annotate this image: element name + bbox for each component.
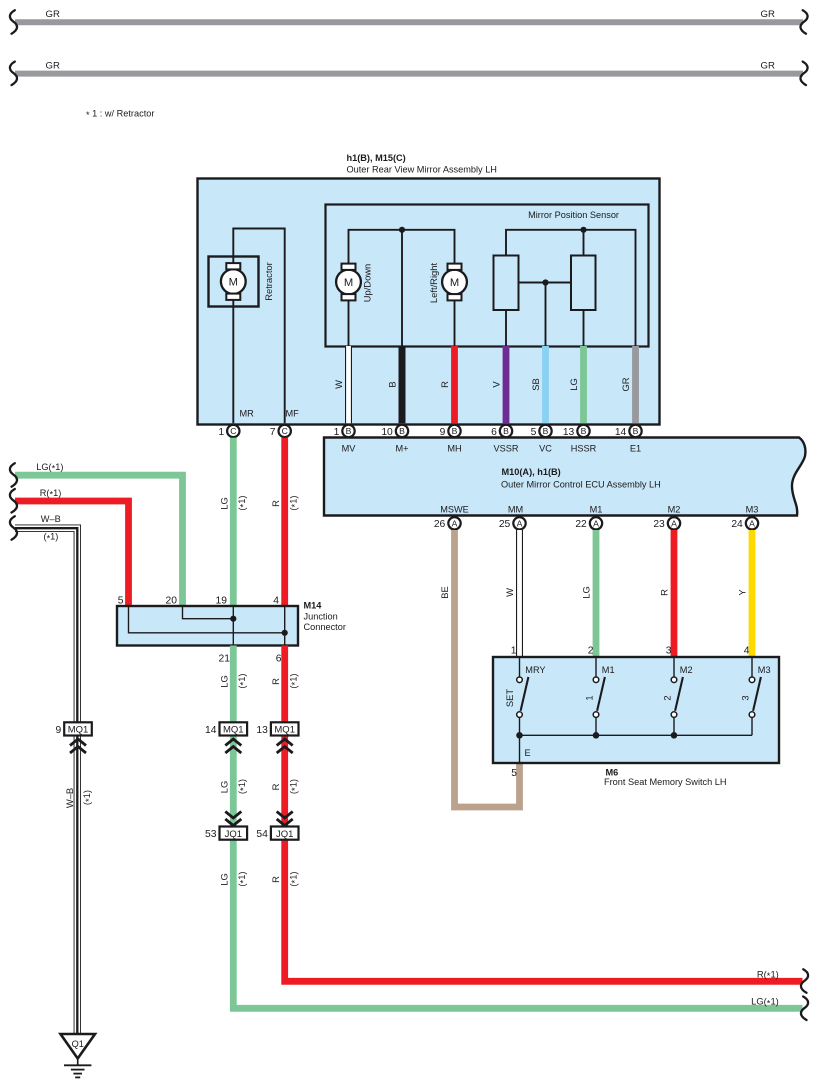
switch 3 (M3) (740, 658, 771, 735)
break symbol left of GR bus 1 (10, 10, 17, 34)
pin 6(B) VSSR (491, 425, 512, 438)
label LG (M1 wire) (581, 586, 592, 599)
label (*1) (below JQ1 R) (287, 871, 300, 886)
wire sensor top bus (VSSR to E1) (506, 230, 636, 347)
svg-text:R: R (270, 876, 281, 883)
label M10(A), h1(B) (502, 467, 561, 477)
label Front Seat Memory Switch LH (604, 777, 727, 787)
label W-B left entry (41, 514, 61, 524)
wire HSSR pot top drop (583, 230, 585, 256)
label pin E1 (630, 443, 641, 453)
svg-text:LG: LG (219, 675, 230, 688)
motor M left/right (442, 264, 467, 301)
svg-text:14: 14 (205, 725, 217, 736)
label BE (439, 586, 450, 599)
label pin MV (342, 443, 357, 453)
break symbol R(*1) right (801, 969, 808, 993)
svg-text:MQ1: MQ1 (274, 725, 295, 736)
svg-text:LG: LG (219, 873, 230, 886)
label pin 20 (M14) (166, 596, 178, 607)
label h1(B), M15(C) (347, 153, 406, 163)
svg-text:23: 23 (653, 519, 665, 530)
switch 2 (M2) (662, 658, 693, 735)
label R (MQ1-JQ1) (270, 783, 281, 790)
break symbol left of GR bus 2 (10, 62, 17, 86)
svg-text:h1(B), M15(C): h1(B), M15(C) (347, 153, 406, 163)
wire R from M14 pin 6 to right exit R(*1) (285, 646, 803, 982)
wire Y from M3 (749, 530, 756, 658)
wire LG(*1) from left to M14 pin 20 (15, 475, 183, 606)
wire retractor motor top to MF pin (233, 229, 284, 424)
wire LG from M14 pin 21 to right exit LG(*1) (233, 646, 802, 1009)
label R (C wire) (270, 500, 281, 507)
label R(*1) right exit (757, 968, 779, 981)
svg-text:* 1 : w/ Retractor: * 1 : w/ Retractor (86, 109, 154, 121)
svg-text:(*1): (*1) (287, 673, 300, 688)
svg-text:A: A (749, 518, 755, 528)
svg-text:V: V (491, 381, 502, 388)
wire up/down motor bottom drop (MV) (348, 298, 350, 346)
label pin 5 (M14) (118, 596, 124, 607)
wire M14 internal from pin 5 to pin 4 line (129, 607, 285, 633)
label GR (bus 2 left) (46, 60, 60, 71)
pin 22(A) M1 (575, 517, 602, 530)
label R(*1) left entry (40, 488, 61, 500)
pin 13(B) HSSR (563, 425, 590, 438)
pin 5(B) VC (531, 425, 552, 438)
pin 9(B) MH (440, 425, 461, 438)
svg-text:Y: Y (737, 589, 748, 596)
svg-text:M: M (450, 277, 459, 289)
svg-text:19: 19 (216, 596, 228, 607)
svg-text:(*1): (*1) (236, 779, 249, 794)
svg-text:MRY: MRY (525, 665, 545, 675)
svg-text:(*1): (*1) (44, 532, 59, 544)
label W (333, 380, 344, 389)
svg-text:21: 21 (219, 654, 231, 665)
svg-text:9: 9 (55, 725, 61, 736)
svg-text:13: 13 (256, 725, 268, 736)
connector 9 MQ1 (W-B) (55, 722, 91, 736)
svg-text:R: R (270, 783, 281, 790)
svg-text:B: B (387, 381, 398, 387)
label R (below M14) (270, 678, 281, 685)
inner box Mirror Position Sensor (326, 205, 649, 347)
label M14 (304, 601, 323, 611)
svg-text:HSSR: HSSR (571, 443, 597, 453)
label pin HSSR (571, 443, 597, 453)
label LG(*1) left entry (36, 462, 63, 474)
label Y (M3 wire) (737, 589, 748, 596)
wire B (M+ segment) (399, 346, 406, 423)
svg-text:1: 1 (511, 646, 517, 657)
svg-text:6: 6 (491, 427, 497, 438)
svg-text:1: 1 (334, 427, 340, 438)
svg-text:LG: LG (581, 586, 592, 599)
svg-text:LG(*1): LG(*1) (36, 462, 63, 474)
wire LG (HSSR segment) (580, 346, 587, 423)
svg-text:M2: M2 (668, 505, 681, 515)
svg-text:GR: GR (761, 9, 775, 20)
label Up/Down (362, 264, 373, 303)
svg-text:W–B: W–B (41, 514, 61, 524)
label pin VSSR (493, 443, 518, 453)
wire R from pin 7(C) to M14 pin 4 (281, 438, 288, 606)
label Mirror Position Sensor (528, 210, 619, 220)
label W (MM wire) (504, 588, 515, 597)
pin 25(A) MM (499, 517, 526, 530)
component box M14 Junction Connector (117, 606, 298, 646)
label M6 (606, 768, 619, 778)
wire M14 internal from pin 20 to pin 19 line (183, 607, 234, 619)
break symbol LG(*1) left (10, 463, 17, 487)
svg-text:(*1): (*1) (287, 779, 300, 794)
retractor outer square (209, 257, 259, 307)
wire GR bus 2 (second gray) (15, 71, 803, 77)
component box M6 Front Seat Memory Switch LH (493, 657, 779, 763)
svg-text:MV: MV (342, 443, 357, 453)
svg-text:SET: SET (504, 689, 515, 708)
svg-text:E1: E1 (630, 443, 641, 453)
pin 10(B) M+ (381, 425, 408, 438)
label pin 21 (M14) (219, 654, 231, 665)
svg-text:M2: M2 (680, 665, 693, 675)
svg-text:B: B (581, 426, 587, 436)
svg-text:GR: GR (620, 377, 631, 391)
node junction bus at switch 1 (593, 732, 600, 739)
svg-text:C: C (230, 426, 236, 436)
svg-text:R(*1): R(*1) (757, 968, 779, 981)
label pin M2 (668, 505, 681, 515)
svg-text:M1: M1 (590, 505, 603, 515)
wire R from M2 (671, 530, 678, 658)
node junction bus at switch 2 (671, 732, 678, 739)
label pin VC (539, 443, 552, 453)
label (*1) (below M14 R) (287, 673, 300, 688)
label LG (below M14) (219, 675, 230, 688)
label Connector (304, 622, 346, 632)
break symbol right of GR bus 1 (800, 10, 807, 34)
svg-text:A: A (593, 518, 599, 528)
label Junction (304, 612, 338, 622)
svg-text:MM: MM (508, 505, 523, 515)
label pin 6 (M14) (276, 654, 282, 665)
label pin 4 (M6) (744, 646, 750, 657)
potentiometer right (position sensor) (571, 256, 596, 311)
label SB (530, 378, 541, 391)
svg-text:SB: SB (530, 378, 541, 391)
node junction bus at SET (516, 732, 523, 739)
wire HSSR pot bottom drop (583, 310, 585, 346)
label R (M2 wire) (659, 589, 670, 596)
wire retractor motor bottom to MR pin (232, 298, 234, 423)
label E (525, 748, 531, 758)
svg-text:M3: M3 (758, 665, 771, 675)
component box M10(A),h1(B) Outer Mirror Control ECU Assembly LH (324, 438, 805, 516)
svg-text:MF: MF (286, 409, 300, 419)
svg-text:LG(*1): LG(*1) (751, 996, 779, 1009)
wire W-B(*1) from left to ground Q1 (15, 528, 77, 1033)
svg-text:5: 5 (511, 768, 517, 779)
node junction sensor top bus (HSSR) (580, 227, 586, 233)
svg-text:MQ1: MQ1 (68, 725, 89, 736)
label pin 5 (M6) (511, 768, 517, 779)
label pin M3 (746, 505, 759, 515)
node junction on motor bus (M+) (399, 227, 405, 233)
svg-text:(*1): (*1) (287, 495, 300, 510)
label (*1) (ground wire) (81, 790, 94, 805)
svg-text:A: A (517, 518, 523, 528)
pin 23(A) M2 (653, 517, 680, 530)
svg-text:C: C (282, 426, 288, 436)
label Retractor (263, 262, 274, 301)
wire sensor middle link with VC tap (519, 282, 572, 284)
ground Q1 triangle (61, 1034, 96, 1059)
svg-text:Up/Down: Up/Down (362, 264, 373, 303)
svg-text:13: 13 (563, 427, 575, 438)
pin 1(B) MV (334, 425, 355, 438)
svg-text:M: M (344, 277, 353, 289)
label pin M+ (395, 443, 408, 453)
label Left/Right (428, 263, 439, 304)
break symbol LG(*1) right (801, 997, 808, 1021)
svg-text:E: E (525, 748, 531, 758)
node junction VC tap (542, 279, 548, 285)
svg-text:9: 9 (440, 427, 446, 438)
motor M retractor (221, 263, 246, 300)
svg-text:GR: GR (761, 60, 775, 71)
wire VSSR pot bottom drop (505, 310, 507, 346)
svg-text:B: B (399, 426, 405, 436)
svg-text:Front Seat Memory Switch LH: Front Seat Memory Switch LH (604, 777, 727, 787)
svg-text:26: 26 (434, 519, 446, 530)
label LG (C wire) (219, 497, 230, 510)
svg-text:2: 2 (662, 695, 673, 700)
svg-text:20: 20 (166, 596, 178, 607)
label pin 4 (M14) (273, 596, 279, 607)
svg-text:LG: LG (219, 781, 230, 794)
svg-text:Retractor: Retractor (263, 262, 274, 301)
svg-text:3: 3 (666, 646, 672, 657)
ground symbol hatches (64, 1059, 91, 1078)
label LG (MQ1-JQ1) (219, 781, 230, 794)
wire M6 common bus (520, 734, 753, 736)
svg-text:JQ1: JQ1 (225, 829, 242, 840)
svg-text:M: M (229, 277, 238, 289)
label (*1) (MQ1-JQ1 LG) (236, 779, 249, 794)
label pin MM (508, 505, 523, 515)
wire GR (E1 segment) (632, 346, 639, 423)
potentiometer left (position sensor) (494, 256, 519, 311)
svg-text:6: 6 (276, 654, 282, 665)
svg-text:Connector: Connector (304, 622, 346, 632)
motor M up/down (336, 264, 361, 301)
connector 54 JQ1 (R) (256, 827, 298, 841)
component box h1(B),M15(C) Outer Rear View Mirror Assembly LH (198, 179, 660, 425)
label pin MH (447, 443, 461, 453)
svg-text:GR: GR (46, 60, 60, 71)
svg-text:5: 5 (531, 427, 537, 438)
svg-text:5: 5 (118, 596, 124, 607)
svg-text:LG: LG (568, 378, 579, 391)
label pin 2 (M6) (588, 646, 594, 657)
switch SET (MRY) (504, 658, 545, 735)
connector 53 JQ1 (LG) (205, 827, 247, 841)
label LG(*1) right exit (751, 996, 779, 1009)
svg-text:(*1): (*1) (236, 871, 249, 886)
wire VC drop (545, 283, 547, 347)
wire W from MM to M6 MRY (516, 530, 523, 658)
wire M14 internal pin4-pin6 vertical (284, 607, 286, 645)
label Q1 (72, 1039, 84, 1049)
svg-text:MQ1: MQ1 (223, 725, 244, 736)
label MF (286, 409, 300, 419)
pin 26(A) MSWE (434, 517, 461, 530)
svg-text:B: B (543, 426, 549, 436)
label (*1) (MQ1-JQ1 R) (287, 779, 300, 794)
svg-text:(*1): (*1) (287, 871, 300, 886)
label (*1) (below M14 LG) (236, 673, 249, 688)
note *1 w/ Retractor (86, 109, 154, 121)
svg-text:(*1): (*1) (236, 495, 249, 510)
svg-text:R(*1): R(*1) (40, 488, 61, 500)
label pin 3 (M6) (666, 646, 672, 657)
svg-text:1: 1 (584, 695, 595, 700)
label GR (620, 377, 631, 391)
node junction M14 (pin19 line) (230, 616, 236, 622)
label (*1) (C wire R) (287, 495, 300, 510)
svg-text:14: 14 (615, 427, 627, 438)
svg-text:W: W (333, 380, 344, 389)
label GR (bus 1 left) (46, 9, 60, 20)
label GR (bus 1 right) (761, 9, 775, 20)
node junction M14 (pin4 line) (282, 630, 288, 636)
label pin 1 (M6) (511, 646, 517, 657)
break symbol right of GR bus 2 (800, 62, 807, 86)
svg-text:10: 10 (381, 427, 393, 438)
svg-text:24: 24 (731, 519, 743, 530)
label pin M1 (590, 505, 603, 515)
svg-text:M3: M3 (746, 505, 759, 515)
wire BE from MSWE to M6 pin 5 (455, 530, 520, 807)
label Outer Rear View Mirror Assembly LH (347, 164, 497, 174)
svg-text:R: R (439, 381, 450, 388)
svg-text:Mirror Position Sensor: Mirror Position Sensor (528, 210, 619, 220)
svg-text:(*1): (*1) (236, 673, 249, 688)
wire up/down motor top bus (349, 230, 455, 265)
break symbol W-B left (10, 516, 17, 540)
wire M+ drop from junction (401, 230, 403, 347)
chevrons below MQ1 (R) (277, 739, 293, 753)
svg-text:Outer Rear View Mirror Assembl: Outer Rear View Mirror Assembly LH (347, 164, 497, 174)
svg-text:M1: M1 (602, 665, 615, 675)
svg-text:JQ1: JQ1 (276, 829, 293, 840)
svg-text:Q1: Q1 (72, 1039, 84, 1049)
label (*1) (below JQ1 LG) (236, 871, 249, 886)
svg-text:VC: VC (539, 443, 552, 453)
pin 14(B) E1 (615, 425, 642, 438)
svg-text:B: B (452, 426, 458, 436)
wire E drop to pin 5 (519, 735, 521, 762)
label W-B (ground wire) (64, 788, 75, 808)
svg-text:R: R (270, 678, 281, 685)
label R (below JQ1) (270, 876, 281, 883)
chevrons above JQ1 (LG) (225, 812, 241, 826)
svg-text:Junction: Junction (304, 612, 338, 622)
connector 13 MQ1 (R) (256, 722, 298, 736)
svg-text:A: A (452, 518, 458, 528)
svg-text:2: 2 (588, 646, 594, 657)
wire R (MH segment) (451, 346, 458, 423)
svg-text:W–B: W–B (64, 788, 75, 808)
wire V (VSSR segment) (503, 346, 510, 423)
svg-text:BE: BE (439, 586, 450, 599)
pin 24(A) M3 (731, 517, 758, 530)
svg-text:B: B (503, 426, 509, 436)
wire left/right motor bottom drop (MH) (454, 298, 456, 346)
wire LG from M1 (593, 530, 600, 658)
svg-text:Left/Right: Left/Right (428, 263, 439, 304)
svg-text:(*1): (*1) (81, 790, 94, 805)
label pin 19 (M14) (216, 596, 228, 607)
svg-text:7: 7 (270, 427, 276, 438)
svg-text:LG: LG (219, 497, 230, 510)
svg-text:53: 53 (205, 829, 217, 840)
svg-text:R: R (270, 500, 281, 507)
wire GR bus 1 (top gray) (15, 19, 803, 25)
svg-text:M6: M6 (606, 768, 619, 778)
pin 7(C) MF (270, 425, 291, 438)
svg-text:1: 1 (218, 427, 224, 438)
switch 1 (M1) (584, 658, 615, 735)
svg-text:3: 3 (740, 695, 751, 700)
label GR (bus 2 right) (761, 60, 775, 71)
wire LG from pin 1(C) to M14 pin 19 (230, 438, 237, 606)
svg-text:4: 4 (744, 646, 750, 657)
svg-text:MSWE: MSWE (440, 505, 469, 515)
wire M14 internal pin19-pin21 vertical (232, 607, 234, 645)
pin 1(C) MR (218, 425, 239, 438)
label pin MSWE (440, 505, 469, 515)
svg-text:M14: M14 (304, 601, 323, 611)
chevrons below MQ1 (W-B) (70, 739, 86, 753)
label (*1) (C wire LG) (236, 495, 249, 510)
svg-text:4: 4 (273, 596, 279, 607)
svg-text:W: W (504, 588, 515, 597)
label V (491, 381, 502, 388)
svg-text:VSSR: VSSR (493, 443, 518, 453)
label (*1) below W-B entry (44, 532, 59, 544)
svg-text:25: 25 (499, 519, 511, 530)
label Outer Mirror Control ECU Assembly LH (501, 480, 661, 490)
svg-text:MR: MR (240, 409, 255, 419)
svg-text:B: B (633, 426, 639, 436)
svg-text:MH: MH (447, 443, 461, 453)
svg-text:A: A (671, 518, 677, 528)
label R (439, 381, 450, 388)
svg-text:54: 54 (256, 829, 268, 840)
svg-text:M10(A), h1(B): M10(A), h1(B) (502, 467, 561, 477)
break symbol R(*1) left (10, 489, 17, 513)
chevrons above JQ1 (R) (277, 812, 293, 826)
label MR (240, 409, 255, 419)
wire R(*1) from left to M14 pin 5 (15, 501, 129, 606)
svg-text:M+: M+ (395, 443, 408, 453)
label LG (568, 378, 579, 391)
label LG (below JQ1) (219, 873, 230, 886)
connector 14 MQ1 (LG) (205, 722, 247, 736)
svg-text:R: R (659, 589, 670, 596)
